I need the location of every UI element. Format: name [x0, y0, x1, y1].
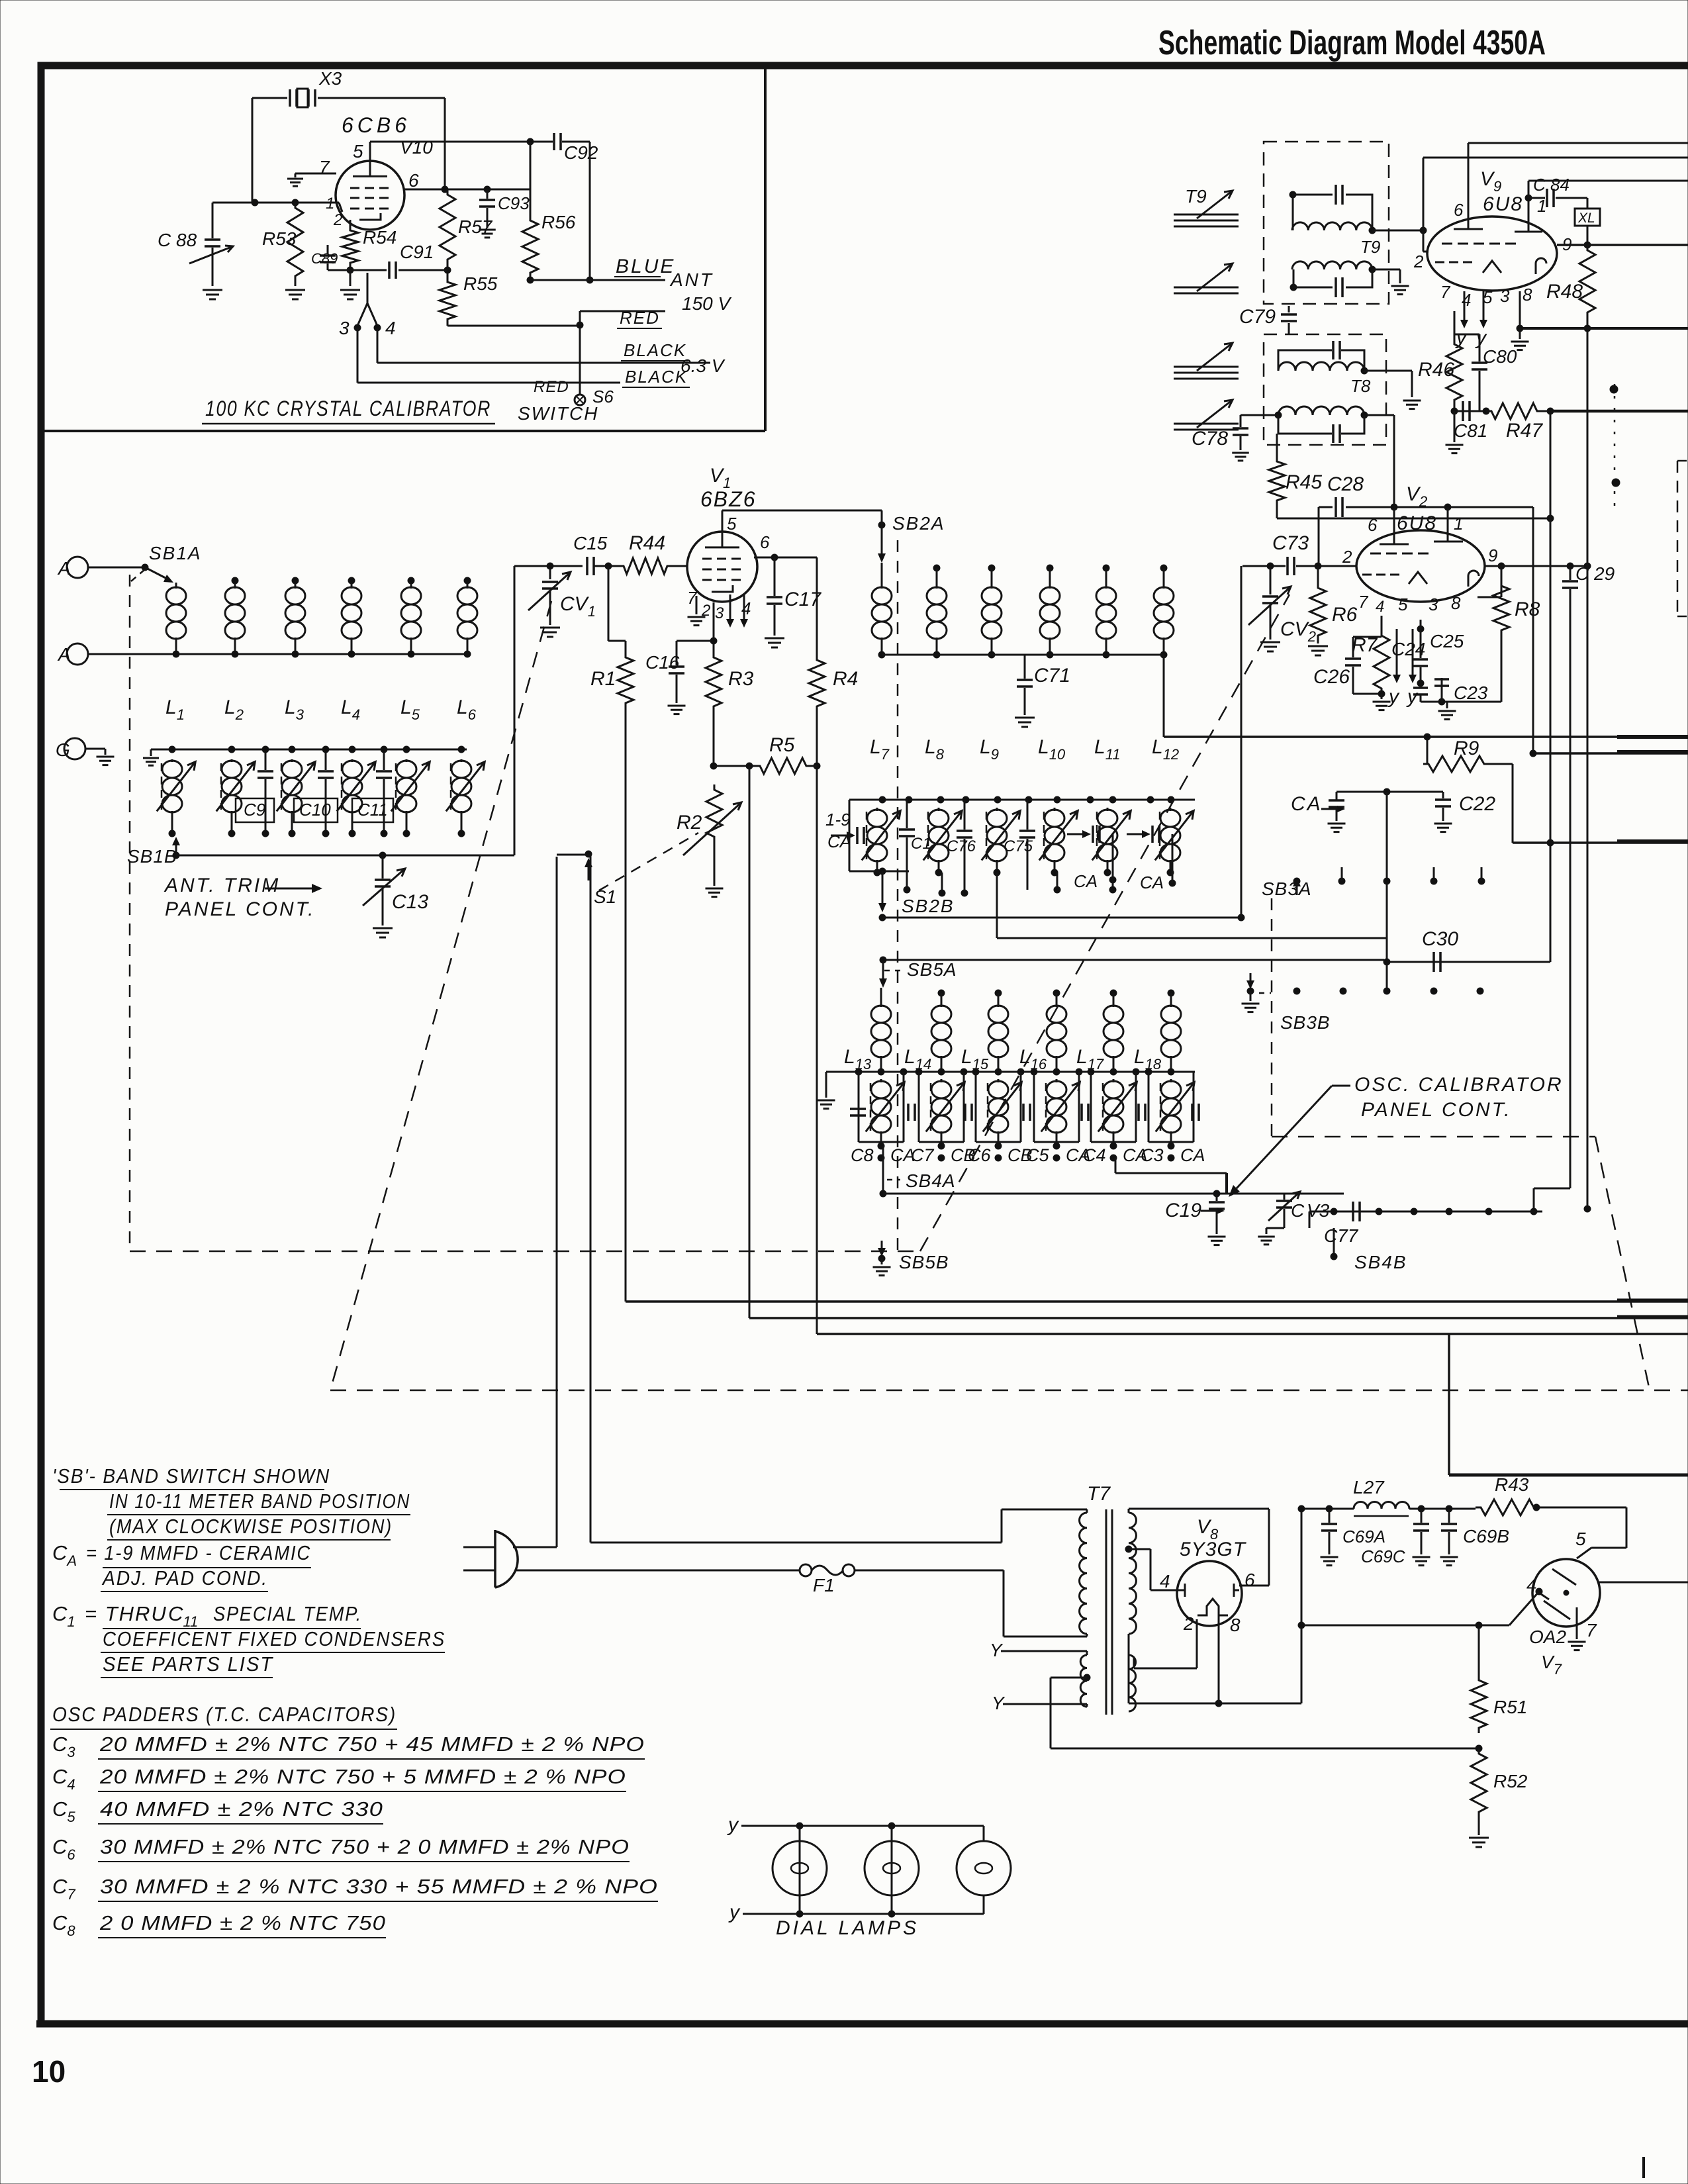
svg-text:C24: C24 — [1391, 639, 1425, 659]
coil L6 — [457, 577, 477, 657]
SB4B contact row — [1309, 1208, 1542, 1228]
svg-text:C4: C4 — [1083, 1145, 1106, 1165]
wire grid node down to SB2B bus — [1241, 566, 1243, 918]
svg-text:OSC PADDERS (T.C. CAPACITORS): OSC PADDERS (T.C. CAPACITORS) — [52, 1703, 397, 1726]
svg-text:DIAL LAMPS: DIAL LAMPS — [776, 1917, 919, 1939]
svg-text:PANEL CONT.: PANEL CONT. — [1361, 1099, 1512, 1121]
svg-text:6U8: 6U8 — [1397, 512, 1437, 534]
resistor R4 — [809, 655, 858, 712]
crystal XL — [1575, 198, 1600, 248]
switch SB1B — [127, 837, 180, 867]
svg-text:R6: R6 — [1332, 604, 1358, 626]
svg-text:8: 8 — [1451, 593, 1461, 613]
coil L15 — [988, 990, 1008, 1072]
dial lamp 2 — [865, 1826, 919, 1914]
trimmer inductor unit band3-2 — [919, 1072, 964, 1149]
bus B2 to right edge — [749, 1317, 1688, 1318]
transformer T9 can dashed box — [1264, 142, 1389, 304]
svg-text:OSC. CALIBRATOR: OSC. CALIBRATOR — [1354, 1074, 1564, 1096]
svg-text:4: 4 — [1160, 1571, 1170, 1591]
capacitor C93 — [479, 189, 530, 238]
svg-text:C25: C25 — [1430, 631, 1464, 651]
trimmer inductor unit band1-3 — [277, 759, 315, 837]
svg-text:A: A — [57, 644, 71, 665]
Y heater wire bottom — [992, 1693, 1087, 1713]
svg-text:R45: R45 — [1286, 471, 1322, 493]
osc padder value C7 — [52, 1875, 658, 1903]
svg-text:C10: C10 — [299, 800, 331, 820]
switch SB5A — [879, 959, 957, 988]
trimmer inductor unit band3-4 — [1034, 1072, 1080, 1149]
dial lamp 1 — [773, 1826, 827, 1914]
svg-text:3: 3 — [339, 318, 350, 338]
svg-text:C71: C71 — [1034, 665, 1070, 687]
label L14 — [904, 1046, 931, 1072]
svg-text:6U8: 6U8 — [1483, 193, 1523, 215]
trimmer cap CA band2 mid — [1067, 826, 1116, 893]
svg-text:5: 5 — [727, 514, 737, 534]
dashed IF can right edge — [1677, 461, 1688, 616]
trimmer inductor unit band3-6 — [1149, 1072, 1194, 1149]
svg-text:R2: R2 — [677, 812, 702, 833]
OA2 pin4 wire — [1298, 1588, 1542, 1629]
svg-text:R1: R1 — [590, 668, 616, 690]
pin 2 label — [333, 211, 342, 229]
wire C28 node down — [1532, 507, 1534, 753]
T9 label — [1360, 237, 1380, 257]
V9 pin6 plate wire to edge — [1468, 143, 1688, 218]
coil L9 — [982, 565, 1002, 658]
svg-text:IN 10-11 METER BAND POSITION: IN 10-11 METER BAND POSITION — [109, 1490, 410, 1513]
tube V9 6U8 — [1427, 168, 1557, 291]
switch SB5B — [873, 1241, 949, 1276]
resistor R52 — [1471, 1748, 1528, 1817]
wire C84 node to edge — [1528, 181, 1688, 198]
R2 ground — [706, 842, 724, 897]
V2 plate wire pin9 — [1485, 563, 1591, 569]
trimmer cap CA band2 left — [831, 827, 864, 844]
svg-text:C1: C1 — [911, 835, 931, 853]
trimmer inductor unit band2-1 — [862, 808, 900, 876]
V1 cathode wire to R3 — [710, 602, 717, 652]
stub band2 unit4 — [1054, 873, 1060, 893]
svg-text:BLUE: BLUE — [616, 256, 675, 277]
gang linkage osc horizontal dashed — [1272, 1136, 1595, 1138]
wire CA node down to SB3 — [1386, 792, 1388, 991]
note band switch line2 — [107, 1490, 410, 1515]
svg-text:C69C: C69C — [1361, 1546, 1405, 1566]
svg-text:20 MMFD ± 2% NTC 750 + 5: 20 MMFD ± 2% NTC 750 + 5 MMFD ± 2 % NPO — [99, 1765, 626, 1788]
note band switch line1 — [52, 1464, 330, 1490]
resistor R55 — [440, 265, 498, 324]
stray mark — [1642, 2157, 1645, 2178]
coil L12 — [1154, 565, 1174, 658]
resistor R8 — [1447, 563, 1540, 702]
L7-L12 bottom bus — [882, 654, 1164, 656]
svg-text:8: 8 — [1523, 285, 1532, 305]
OSC CALIBRATOR PANEL CONT note — [1229, 1074, 1564, 1197]
wire R3 to node — [710, 712, 755, 769]
svg-text:T9: T9 — [1360, 237, 1380, 257]
capacitor C92 — [554, 133, 598, 163]
switch SB4B — [1331, 1228, 1407, 1272]
svg-text:R57: R57 — [458, 216, 493, 237]
svg-text:CA: CA — [1291, 793, 1323, 815]
svg-text:ANT. TRIM: ANT. TRIM — [164, 875, 280, 896]
svg-text:X3: X3 — [318, 68, 342, 89]
svg-text:OA2: OA2 — [1529, 1627, 1566, 1647]
svg-text:3: 3 — [715, 604, 724, 622]
T8 secondary capacitor — [1278, 415, 1364, 443]
svg-text:R48: R48 — [1546, 281, 1583, 303]
T7 primary leads — [1086, 1509, 1088, 1637]
svg-text:2 0 MMFD ± 2 % NTC 750: 2 0 MMFD ± 2 % NTC 750 — [99, 1911, 386, 1934]
resistor R1 — [590, 652, 633, 708]
wire R47 node down — [1547, 411, 1554, 962]
resistor R3 — [706, 652, 754, 712]
resistor R5 — [755, 734, 817, 774]
svg-text:R5: R5 — [769, 734, 795, 756]
R7 ground — [1373, 690, 1391, 710]
label L8 — [925, 736, 945, 763]
svg-text:'SB'- BAND SWITCH SHOWN: 'SB'- BAND SWITCH SHOWN — [52, 1464, 330, 1488]
capacitor C84 — [1525, 175, 1587, 222]
bus below V9 to edge — [1520, 327, 1688, 330]
trimmer inductor unit band1-2 — [216, 759, 255, 837]
svg-text:C 88: C 88 — [158, 230, 197, 250]
svg-text:C16: C16 — [645, 652, 680, 673]
note 1-9 CA — [825, 810, 851, 851]
resistor R43 — [1476, 1474, 1540, 1515]
pin 7 label — [319, 157, 330, 177]
terminal A2 — [57, 643, 88, 665]
tube V1 6BZ6 — [687, 465, 757, 602]
T9 secondary capacitor — [1290, 269, 1372, 297]
svg-text:= THRU: = THRU — [85, 1602, 167, 1625]
pin labels V9 — [1413, 193, 1571, 310]
svg-text:2: 2 — [1342, 547, 1352, 567]
T8 primary coil — [1278, 362, 1412, 374]
heavy supply wire to right edge — [1449, 1334, 1688, 1475]
V8 pin8 B+ wire — [1218, 1613, 1220, 1703]
note C1 definition line3 — [101, 1652, 273, 1678]
resistor R9 — [1423, 734, 1513, 843]
label L10 — [1038, 736, 1066, 763]
resistor R54 — [342, 220, 397, 273]
T7 HV bottom wire — [1129, 1634, 1301, 1707]
V1 pin7 ground — [688, 596, 706, 626]
filter choke L27 — [1326, 1477, 1476, 1516]
long bus to right edge — [1164, 736, 1688, 738]
coil L17 — [1103, 990, 1123, 1072]
switch S1 — [557, 851, 616, 1547]
trimmer capacitor CV2 — [1248, 566, 1316, 651]
plate wire to C92 — [370, 138, 553, 161]
svg-text:SB5B: SB5B — [899, 1252, 949, 1272]
V2 cathode arrows y y — [1387, 629, 1419, 708]
trimmer inductor unit band1-4 — [337, 759, 375, 837]
svg-text:BLACK: BLACK — [624, 340, 686, 360]
gang linkage long horizontal dashed — [330, 1390, 1688, 1392]
svg-text:C23: C23 — [1454, 683, 1488, 703]
svg-text:y: y — [1387, 686, 1400, 708]
svg-text:10: 10 — [32, 2054, 66, 2089]
svg-text:C: C — [1291, 1200, 1305, 1221]
R52 ground — [1469, 1817, 1489, 1847]
grid node wire — [212, 199, 342, 212]
capacitor C75 — [1004, 800, 1035, 890]
pin labels V1 — [687, 514, 770, 622]
svg-text:ADJ. PAD COND.: ADJ. PAD COND. — [101, 1566, 268, 1590]
note C1 definition line2 — [101, 1627, 445, 1652]
capacitor C9 — [236, 746, 274, 837]
switch SB1A — [88, 543, 202, 583]
svg-text:R55: R55 — [463, 273, 498, 294]
label L17 — [1076, 1046, 1104, 1072]
150V RED supply wire — [580, 293, 731, 328]
ground R54 — [340, 270, 360, 299]
pin labels V2 — [1342, 514, 1497, 616]
wire R1 down to bus — [625, 708, 627, 1302]
capacitor C25 — [1413, 631, 1464, 702]
svg-text:C79: C79 — [1239, 306, 1276, 328]
svg-text:SB3B: SB3B — [1280, 1012, 1331, 1033]
svg-text:3: 3 — [1500, 286, 1510, 306]
svg-text:C80: C80 — [1483, 346, 1517, 367]
capacitor C73 — [1243, 532, 1309, 575]
svg-text:SB2A: SB2A — [892, 513, 945, 534]
svg-text:4: 4 — [385, 318, 396, 338]
svg-text:RED: RED — [620, 308, 660, 328]
coil L4 — [342, 577, 361, 657]
label L16 — [1019, 1046, 1047, 1072]
tube V7 OA2 — [1526, 1529, 1600, 1678]
label L5 — [400, 696, 420, 723]
transformer T7 — [1080, 1483, 1137, 1715]
wire pins to R8 — [1477, 566, 1501, 597]
svg-text:4: 4 — [1526, 1575, 1537, 1595]
label L13 — [844, 1046, 872, 1072]
capacitor C22 — [1434, 792, 1496, 832]
svg-text:RED: RED — [534, 378, 569, 396]
capacitor C30 — [1422, 928, 1458, 972]
capacitor C30 wire — [1383, 959, 1550, 965]
title Schematic Diagram Model 4350A — [1158, 24, 1546, 62]
trimmer capacitor C88 — [158, 203, 233, 299]
trimmer cap CA band2 right — [1127, 826, 1176, 892]
OA2 output wire right — [1599, 1582, 1688, 1584]
note band switch line3 — [107, 1515, 393, 1540]
switch S6 — [518, 378, 614, 424]
resistor R56 — [522, 142, 576, 283]
T9 primary coil — [1292, 222, 1427, 234]
svg-text:C76: C76 — [947, 837, 976, 855]
svg-text:L27: L27 — [1353, 1477, 1385, 1497]
capacitor C69B — [1440, 1509, 1510, 1566]
V9 heater arrows y y — [1455, 291, 1487, 349]
L13 bank top bus — [880, 957, 1384, 963]
coil L7 — [872, 563, 892, 658]
coil L1 — [166, 583, 186, 657]
trimmer inductor unit band1-6 — [446, 759, 485, 837]
band2 unit frame left — [849, 800, 909, 875]
wire R55 to 150V red line — [447, 324, 580, 326]
band2 trimmer bank top bus — [849, 796, 1195, 803]
svg-text:6CB6: 6CB6 — [342, 113, 410, 137]
coil L2 — [225, 577, 245, 657]
coil L13 — [871, 988, 891, 1072]
svg-text:ANT: ANT — [669, 269, 714, 290]
svg-text:6BZ6: 6BZ6 — [700, 487, 756, 511]
resistor R44 — [618, 532, 673, 574]
wire C29 down to SB4B area — [1530, 596, 1570, 1215]
trimmer capacitor C13 — [363, 855, 428, 937]
svg-text:SPECIAL TEMP.: SPECIAL TEMP. — [213, 1602, 362, 1625]
svg-text:6: 6 — [408, 170, 419, 191]
OA2 pin7 ground — [1568, 1607, 1586, 1650]
R51 R52 node — [1476, 1745, 1482, 1752]
pin 5 label — [353, 141, 363, 162]
svg-text:C69A: C69A — [1342, 1527, 1385, 1546]
svg-text:6: 6 — [760, 532, 770, 552]
svg-text:C13: C13 — [392, 891, 428, 913]
wire R48 to bus — [1584, 318, 1591, 332]
T9 secondary ground — [1372, 269, 1409, 295]
svg-text:PANEL CONT.: PANEL CONT. — [165, 898, 316, 920]
svg-text:T9: T9 — [1185, 186, 1207, 207]
V2 grid wire C73 — [1296, 563, 1356, 569]
terminal G — [56, 738, 85, 760]
capacitor C81 — [1454, 401, 1489, 441]
svg-text:C75: C75 — [1004, 837, 1033, 855]
wire R47 node right to edge — [1550, 410, 1688, 413]
wire R45 bottom to right — [1277, 515, 1554, 522]
resistor R7 — [1352, 616, 1389, 694]
terminal A1 — [57, 557, 88, 579]
svg-text:BLACK: BLACK — [625, 367, 688, 387]
svg-text:C9: C9 — [244, 800, 265, 820]
AC wire top via S1 — [513, 1509, 1087, 1547]
note CA definition line2 — [101, 1566, 268, 1591]
svg-text:C92: C92 — [564, 142, 598, 163]
switch SB4A — [880, 1146, 956, 1197]
svg-text:5: 5 — [1398, 594, 1408, 614]
svg-text:7: 7 — [1440, 282, 1451, 302]
osc padder value C5 — [52, 1797, 383, 1825]
capacitor C91 — [350, 242, 447, 279]
svg-text:C28: C28 — [1327, 473, 1364, 495]
band3 right cap — [1192, 1104, 1199, 1121]
coil L11 — [1096, 565, 1116, 658]
gang linkage CV1 diagonal dashed — [330, 601, 551, 1390]
V1 cathode arrows to Y — [726, 594, 748, 628]
svg-text:C8: C8 — [851, 1145, 874, 1165]
svg-text:SWITCH: SWITCH — [518, 403, 598, 424]
resistor R46 — [1418, 311, 1462, 405]
trimmer inductor unit band2-3 — [982, 808, 1020, 876]
svg-text:C6: C6 — [968, 1145, 991, 1165]
trimmer inductor unit band1-1 — [157, 759, 195, 837]
wire R43 to OA2 pin5 — [1539, 1507, 1626, 1548]
wire A2 to coil bus — [88, 653, 467, 655]
slug tuning arrow 2 — [1174, 263, 1239, 293]
label L1 — [165, 696, 185, 723]
tube V10 6CB6 — [336, 113, 433, 230]
svg-text:20 MMFD ± 2% NTC 750 + 45: 20 MMFD ± 2% NTC 750 + 45 MMFD ± 2 % NPO — [99, 1733, 645, 1756]
dial lamps Y wire bottom — [728, 1901, 984, 1923]
svg-text:1: 1 — [1454, 514, 1463, 534]
capacitor C77 — [1324, 1202, 1360, 1246]
bus third to right edge — [1513, 841, 1688, 843]
svg-text:C73: C73 — [1272, 532, 1309, 554]
T7 5V tap wire — [1051, 1674, 1479, 1748]
lower BLACK wire — [357, 328, 690, 387]
slug tuning arrows T9 — [1174, 186, 1239, 226]
wire X3 left to grid node — [252, 98, 254, 203]
capacitor C29 — [1562, 563, 1615, 596]
pin 7 ground — [287, 173, 336, 186]
coil L3 — [285, 577, 305, 657]
wire band2 unit3 down — [996, 873, 998, 938]
switch SB2B — [878, 871, 955, 921]
capacitor C1 — [899, 800, 931, 893]
label L9 — [980, 736, 999, 763]
svg-text:5: 5 — [353, 141, 363, 162]
resistor R47 — [1486, 403, 1554, 442]
resistor R45 — [1269, 434, 1322, 518]
trimmer inductor unit band3-1 — [859, 1072, 904, 1149]
svg-text:C19: C19 — [1165, 1200, 1201, 1221]
gang linkage osc diagonal dashed — [1595, 1137, 1650, 1390]
svg-text:R4: R4 — [833, 668, 858, 690]
svg-text:R43: R43 — [1495, 1474, 1529, 1495]
capacitor C28 — [1319, 473, 1533, 517]
label L6 — [457, 696, 477, 723]
capacitor C76 — [947, 800, 976, 896]
trimmer inductor unit band2-6 — [1155, 808, 1194, 876]
wire L12 down to long bus — [1163, 655, 1165, 737]
svg-text:9: 9 — [1488, 546, 1497, 565]
svg-text:S1: S1 — [594, 886, 616, 907]
slug tuning arrow 3 — [1174, 343, 1239, 379]
trimmer capacitor C19 — [1165, 1190, 1226, 1245]
capacitor C78 — [1192, 415, 1278, 461]
transformer T8 can dashed box — [1264, 334, 1386, 445]
band2 SB2B bus — [882, 914, 1244, 921]
wire C15 node — [514, 563, 583, 569]
pin 1 label — [326, 195, 334, 213]
B+ riser — [1298, 1505, 1354, 1703]
svg-text:C15: C15 — [573, 533, 608, 553]
svg-text:SB4B: SB4B — [1354, 1252, 1407, 1272]
capacitor C69C — [1361, 1509, 1430, 1566]
bus B1 to right edge — [626, 1300, 1688, 1302]
V9 pin8 ground — [1511, 291, 1529, 350]
svg-text:2: 2 — [1183, 1613, 1194, 1634]
label L2 — [224, 696, 244, 723]
CA C22 wire — [1336, 788, 1443, 795]
svg-text:C 84: C 84 — [1533, 175, 1570, 195]
V1 pin6 wire — [754, 554, 817, 561]
fuse F1 — [516, 1564, 1004, 1595]
svg-text:C11: C11 — [357, 800, 388, 820]
svg-text:R8: R8 — [1515, 598, 1540, 620]
svg-text:F1: F1 — [813, 1575, 835, 1595]
capacitor C71 — [1015, 655, 1070, 727]
ground at bank1 left — [143, 749, 159, 765]
band switch shaft SB2 dashed — [897, 540, 899, 1251]
svg-text:SEE PARTS LIST: SEE PARTS LIST — [103, 1652, 273, 1676]
